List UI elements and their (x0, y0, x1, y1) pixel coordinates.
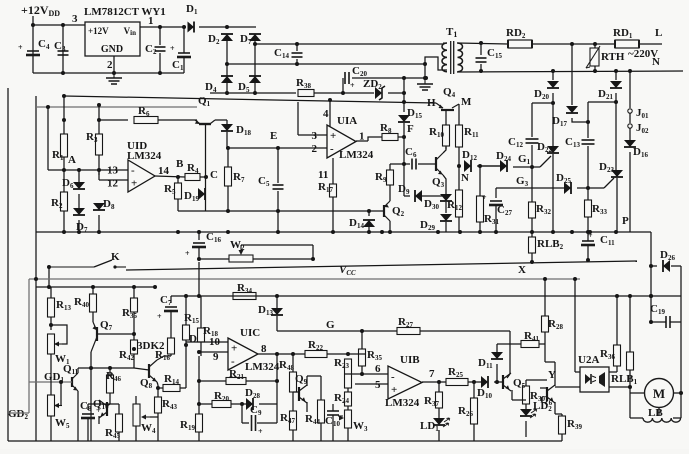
junction (628, 294, 632, 298)
svg-text:GND: GND (101, 44, 123, 55)
wire Q7 base wire (97, 333, 134, 335)
junction (77, 230, 81, 234)
resistor R25 (446, 366, 468, 386)
wire bus y232 (36, 231, 651, 233)
wire (87, 418, 89, 441)
svg-text:LM7812CT WY1: LM7812CT WY1 (84, 6, 166, 18)
wire (109, 393, 111, 404)
ground (417, 80, 433, 90)
svg-text:9: 9 (213, 351, 219, 363)
wire (445, 191, 447, 194)
junction (158, 25, 162, 29)
junction (423, 76, 427, 80)
resistor R18 (198, 325, 219, 342)
wire R6 right (158, 119, 197, 121)
svg-text:L: L (655, 27, 662, 39)
optocoupler U2A (578, 354, 609, 392)
wire (185, 340, 187, 345)
wire RTH top lead (594, 44, 596, 48)
wire (36, 286, 49, 288)
wire (98, 170, 100, 180)
wire bridge top (199, 26, 256, 28)
junction (59, 380, 63, 384)
resistor R13 (48, 298, 72, 317)
diode D19 (184, 188, 205, 203)
diode D5 (238, 76, 261, 94)
wire (629, 370, 631, 418)
resistor R32 (529, 202, 552, 218)
resistor R6 (134, 105, 158, 124)
wire bus y96 to H (64, 96, 436, 103)
wire (78, 170, 80, 182)
wire bridge bottom bus (210, 92, 296, 94)
wire (347, 428, 349, 441)
resistor R38 (296, 77, 314, 97)
resistor RLB1 (611, 352, 638, 386)
motor M (645, 379, 674, 408)
wire bus y211 (178, 210, 369, 212)
svg-text:2: 2 (312, 143, 318, 155)
wire (545, 361, 555, 363)
junction (197, 402, 201, 406)
wire W2 right (253, 258, 313, 260)
resistor R30 (523, 386, 546, 404)
junction (328, 98, 332, 102)
wire (63, 170, 65, 192)
wire (671, 265, 681, 267)
diode D11 (478, 352, 503, 370)
junction (530, 165, 534, 169)
svg-text:2: 2 (107, 59, 113, 71)
diode D12 (462, 149, 477, 172)
wire R17 bottom lead (332, 197, 334, 232)
resistor R15 (183, 312, 200, 340)
fuse RD1 (613, 27, 639, 48)
wire C12 bottom lead (531, 145, 533, 167)
junction (649, 320, 653, 324)
svg-text:12: 12 (107, 177, 119, 189)
junction (89, 366, 93, 370)
wire Q3 emitter (443, 175, 446, 191)
wire (507, 374, 510, 378)
wire (468, 381, 481, 383)
diode LD1 (420, 418, 450, 433)
junction (225, 91, 229, 95)
svg-text:U2A: U2A (578, 354, 599, 366)
wire (473, 382, 475, 398)
wire (231, 403, 246, 405)
junction (176, 230, 180, 234)
wire C13 bottom column (587, 146, 589, 200)
junction (132, 347, 136, 351)
wire motor bottom lead (658, 407, 660, 416)
capacitor C7 (157, 294, 178, 321)
junction (62, 118, 66, 122)
junction (197, 350, 201, 354)
op-amp UIB (385, 354, 422, 409)
diode D21 (598, 81, 622, 101)
potentiometer W2 (229, 239, 253, 262)
wire Q9 collector (306, 376, 308, 386)
resistor R47 (280, 411, 297, 430)
junction (276, 209, 280, 213)
diode D10 (477, 376, 492, 400)
wire (473, 424, 475, 441)
junction (588, 230, 592, 234)
svg-text:11: 11 (318, 169, 328, 181)
capacitor C1 (170, 44, 191, 72)
junction (197, 379, 201, 383)
wire (133, 312, 135, 340)
wire (348, 353, 365, 355)
svg-text:LB: LB (648, 407, 663, 419)
wire (389, 190, 391, 201)
diode D26 (660, 249, 675, 272)
wire G row (277, 330, 397, 332)
wire right return (650, 266, 652, 322)
resistor R37 (424, 392, 443, 408)
wire (398, 136, 404, 138)
wire (63, 211, 65, 232)
wire (98, 215, 100, 232)
wire (292, 430, 294, 441)
wire C8 top lead (87, 404, 89, 410)
junction (360, 329, 364, 333)
wire +12V drop (32, 16, 34, 73)
wire (389, 185, 391, 190)
resistor R24 (334, 392, 352, 406)
wire Q5 emitter (511, 390, 513, 400)
wire (50, 416, 52, 441)
wire K row / X row (126, 261, 637, 270)
wire (422, 195, 446, 197)
wire D22 gate (540, 156, 551, 167)
diode D17 (552, 106, 578, 128)
wire C1 top lead (183, 27, 185, 53)
svg-text:LM324: LM324 (245, 361, 280, 373)
wire input row A (48, 169, 128, 171)
wire (133, 287, 135, 298)
resistor R36 (600, 345, 621, 366)
wire pin3 riser (297, 102, 299, 135)
junction (253, 42, 257, 46)
resistor R39 (559, 416, 583, 434)
wire C2 top lead (159, 27, 161, 45)
wire (276, 316, 278, 331)
wire (200, 296, 202, 328)
wire LB right loop (673, 417, 681, 419)
svg-text:D: D (189, 333, 197, 345)
svg-text:X: X (518, 264, 526, 276)
wire (575, 371, 580, 373)
junction (276, 146, 280, 150)
wire R15 top lead (185, 296, 187, 325)
wire (445, 202, 447, 213)
junction (614, 100, 618, 104)
wire (200, 176, 206, 178)
resistor R44 (305, 400, 325, 426)
capacitor C12 (508, 136, 539, 149)
wire D17 cathode jog (572, 118, 588, 122)
wire (347, 406, 349, 410)
wire C7 bottom lead (170, 311, 172, 330)
junction (156, 386, 160, 390)
svg-text:13: 13 (107, 165, 119, 177)
junction (34, 277, 38, 281)
junction (275, 379, 279, 383)
switch K (49, 260, 126, 269)
wire (320, 423, 322, 441)
wire M drop to R11 (458, 104, 460, 125)
transistor Q7 (91, 319, 113, 352)
wire J01 to J02 (629, 113, 631, 123)
wire C14 bottom lead (296, 59, 298, 64)
wire GD1 row (29, 381, 72, 383)
junction (551, 69, 555, 73)
connector J01 (628, 107, 649, 120)
wire (199, 403, 212, 405)
wire (458, 166, 460, 190)
resistor R10 (429, 125, 450, 146)
junction (573, 277, 577, 281)
wire (389, 164, 391, 170)
wire to regulator (33, 24, 85, 26)
junction (62, 230, 66, 234)
wire Q2 base (369, 210, 384, 212)
diode D25 (556, 172, 571, 194)
wire C10 bottom lead (332, 415, 334, 441)
diode D15 (398, 107, 422, 122)
wire (63, 157, 65, 170)
svg-text:3: 3 (72, 13, 78, 25)
wire G1 left (480, 165, 500, 167)
wire C19 right lead (670, 321, 681, 323)
junction (551, 101, 555, 105)
junction (436, 230, 440, 234)
wire (390, 163, 404, 165)
wire (512, 399, 526, 401)
wire mains N line (457, 71, 683, 72)
svg-text:-: - (391, 371, 395, 383)
wire right return upper (650, 232, 652, 266)
junction (402, 76, 406, 80)
junction (77, 168, 81, 172)
wire R1 top (63, 96, 65, 120)
wire opto drive column (574, 279, 576, 372)
junction (97, 103, 101, 107)
wire (48, 267, 50, 287)
wire (544, 332, 546, 344)
wire pin11 column (332, 158, 334, 184)
diode D24 (496, 150, 511, 172)
junction (424, 76, 428, 80)
wire R6 left (99, 119, 128, 121)
wire C12 top lead (531, 103, 533, 137)
wire R44 top lead (320, 376, 322, 400)
junction (593, 42, 597, 46)
wire (135, 396, 137, 404)
wire pin9 row (199, 351, 228, 353)
connector J02 (628, 122, 649, 135)
wire (246, 380, 277, 382)
wire C2 bottom lead (159, 53, 161, 73)
transistor Q3 (432, 153, 445, 189)
wire (98, 155, 100, 175)
wire (292, 392, 294, 411)
resistor R19 (180, 414, 203, 432)
wire (198, 262, 200, 296)
wire GD rail (28, 279, 30, 413)
wire E row (228, 147, 327, 149)
junction (478, 164, 482, 168)
wire R36 column (616, 296, 618, 345)
diode D20 (534, 81, 559, 101)
wire (438, 382, 440, 392)
resistor R14 (163, 373, 180, 392)
wire C9 loop left (241, 404, 243, 423)
wire (458, 217, 460, 232)
wire (494, 381, 502, 383)
junction (479, 69, 483, 73)
wire Q11 collector up (77, 368, 79, 373)
diode D2 (208, 33, 233, 46)
resistor R33 (585, 200, 608, 217)
wire (525, 421, 527, 437)
potentiometer W3 (338, 410, 368, 433)
svg-text:E: E (270, 130, 277, 142)
junction (478, 230, 482, 234)
thermistor RTH (586, 46, 625, 68)
svg-text:+: + (131, 177, 137, 189)
svg-text:+: + (391, 384, 397, 396)
junction (253, 91, 257, 95)
wire (404, 195, 410, 197)
junction (402, 91, 406, 95)
wire (88, 403, 119, 405)
resistor R16 (155, 338, 175, 362)
wire (118, 432, 120, 441)
wire G1 row (513, 166, 540, 168)
wire R15 column down (185, 345, 187, 388)
junction (402, 135, 406, 139)
wire C7 top lead (170, 296, 172, 303)
wire bottom-left top rail (49, 286, 155, 288)
wire (98, 416, 100, 424)
wire (198, 432, 200, 441)
wire (50, 380, 52, 395)
junction (153, 285, 157, 289)
wire Q1 base drop (205, 124, 207, 211)
transistor Q2 (384, 201, 405, 221)
junction (586, 186, 590, 190)
wire motor right lead (673, 392, 681, 394)
wire regulator output (140, 26, 184, 28)
wire (63, 120, 65, 134)
wire C5 top lead (277, 148, 279, 183)
wire motor left lead (630, 392, 645, 394)
resistor R12 (447, 190, 463, 217)
junction (551, 230, 555, 234)
wire (552, 93, 554, 103)
resistor R46 (106, 370, 121, 393)
resistor R4 (185, 162, 200, 181)
wire F column (403, 123, 405, 165)
wire Q8 base (134, 368, 149, 370)
svg-text:F: F (407, 123, 414, 135)
junction (472, 380, 476, 384)
resistor R48 (279, 359, 297, 392)
wire (92, 312, 94, 322)
wire G3 row (496, 187, 564, 189)
wire (525, 404, 527, 409)
capacitor C3 (54, 40, 69, 55)
svg-text:+: + (157, 312, 162, 321)
ground (106, 74, 122, 84)
diode D28 (245, 387, 260, 410)
wire (531, 232, 533, 237)
capacitor C4 (18, 38, 50, 55)
resistor R45 (105, 414, 123, 440)
diode D14 (349, 217, 375, 230)
resistor R26 (458, 398, 478, 424)
wire (226, 120, 228, 125)
svg-text:A: A (68, 154, 76, 166)
wire C10 top lead (332, 404, 334, 411)
wire R32 top lead (531, 167, 533, 202)
wire AC line top (255, 43, 443, 45)
junction (291, 352, 295, 356)
wire (368, 211, 370, 216)
junction (197, 257, 201, 261)
wire secondary top (457, 43, 508, 44)
wire (170, 330, 172, 338)
op-amp UIC (228, 327, 280, 373)
wire Q2 emitter down (389, 221, 391, 233)
wire C11 bottom lead (587, 245, 589, 260)
capacitor C20 (345, 65, 367, 90)
wire (438, 408, 440, 419)
wire (50, 287, 52, 298)
wire (200, 342, 202, 356)
diode D6 (62, 177, 85, 190)
wire R41 row (497, 343, 521, 345)
svg-text:P: P (622, 215, 629, 227)
wire R1 column top (47, 107, 49, 170)
wire pin5 row (355, 383, 388, 385)
wire D20 to D22 (552, 103, 554, 146)
junction (341, 91, 345, 95)
diode ZD2 (363, 78, 385, 100)
wire to R8 (368, 137, 382, 141)
wire R10 bottom (445, 146, 447, 149)
junction (367, 209, 371, 213)
wire C13 branch (588, 101, 616, 103)
wire Q6 collector up (554, 362, 556, 386)
capacitor C15 (476, 47, 503, 62)
wire D15 column (403, 78, 405, 112)
junction (197, 230, 201, 234)
wire opto bottom-left (555, 386, 580, 388)
svg-text:H: H (427, 97, 436, 109)
wire R33 bottom lead (587, 217, 589, 232)
junction (380, 230, 384, 234)
junction (628, 69, 632, 73)
junction (158, 71, 162, 75)
resistor R34 (233, 282, 256, 300)
wire Q7 collector column (90, 352, 92, 441)
junction (108, 366, 112, 370)
diode LD2 (520, 400, 552, 418)
